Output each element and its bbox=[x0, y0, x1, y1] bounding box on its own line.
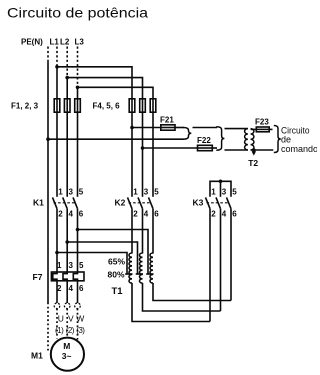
contactor K2 contact 1-2 bbox=[128, 197, 133, 253]
wire K2 column 3 fuse to contact bbox=[152, 112, 154, 197]
svg-text:4: 4 bbox=[222, 209, 227, 218]
wire T2 secondary top to F23 bbox=[251, 128, 257, 130]
wire W dotted to motor bbox=[77, 309, 79, 340]
wire L2 down to fuse F2 bbox=[66, 78, 68, 99]
wire winding C bottom to K3 bbox=[153, 283, 231, 301]
wire T2 primary bottom bbox=[225, 149, 248, 151]
node T1 tap from L2 bbox=[65, 240, 69, 244]
svg-text:Circuito de potência: Circuito de potência bbox=[7, 5, 148, 21]
F7 heater phase 1 bbox=[53, 272, 57, 281]
wire L3 down to fuse F3 bbox=[77, 87, 79, 99]
K1 mechanical link bbox=[54, 202, 77, 204]
svg-text:3: 3 bbox=[69, 261, 74, 270]
svg-text:4: 4 bbox=[69, 209, 74, 218]
K3 mechanical link bbox=[207, 202, 230, 204]
fuse F22 bbox=[198, 145, 213, 150]
node F22 tap bbox=[141, 146, 145, 150]
fuse F6 bbox=[150, 99, 156, 112]
K3 star bus bbox=[210, 181, 231, 197]
svg-text:F1, 2, 3: F1, 2, 3 bbox=[11, 101, 39, 110]
brace selector 2 bbox=[216, 127, 224, 150]
wire K2 column 2 fuse to contact bbox=[142, 112, 144, 197]
svg-text:F22: F22 bbox=[197, 136, 211, 145]
svg-text:F21: F21 bbox=[160, 115, 174, 124]
svg-text:L2: L2 bbox=[60, 38, 70, 47]
fuse F2 bbox=[64, 99, 70, 112]
wire PE dotted to motor bbox=[47, 303, 49, 351]
node L1 junction bbox=[55, 65, 59, 69]
svg-text:5: 5 bbox=[232, 187, 237, 196]
wire branch L3 to F6 column bbox=[78, 87, 154, 99]
svg-text:K3: K3 bbox=[193, 198, 204, 208]
terminal V bbox=[64, 303, 70, 309]
ground arrow on secondary bbox=[252, 151, 257, 155]
fuse F23 bbox=[256, 127, 269, 132]
svg-text:T1: T1 bbox=[112, 286, 124, 297]
motor M1 circle bbox=[51, 338, 84, 371]
node secondary ground tap bbox=[252, 148, 256, 152]
contactor K1 contact 3-4 bbox=[63, 197, 67, 272]
svg-text:M: M bbox=[63, 341, 70, 351]
svg-text:2: 2 bbox=[211, 209, 216, 218]
brace selector 1 bbox=[183, 128, 191, 140]
node T1 tap from L3 bbox=[76, 228, 80, 232]
fuse F21 bbox=[161, 125, 175, 130]
T1 winding A tap tick bbox=[125, 273, 132, 275]
svg-text:6: 6 bbox=[79, 209, 84, 218]
wire T2 primary top bbox=[225, 128, 248, 130]
svg-text:(2): (2) bbox=[66, 326, 75, 335]
wire L2 to coil B tap bbox=[67, 242, 137, 274]
fuse F3 bbox=[75, 99, 81, 112]
svg-text:3~: 3~ bbox=[62, 351, 72, 361]
svg-text:1: 1 bbox=[133, 187, 138, 196]
overload relay F7 box bbox=[51, 272, 84, 281]
terminal U bbox=[54, 303, 60, 309]
wire winding A bottom to K3 bbox=[132, 283, 210, 322]
svg-text:L1: L1 bbox=[50, 38, 60, 47]
wire branch L1 to F4 column bbox=[57, 67, 132, 99]
autotransformer T1 winding C bbox=[150, 253, 153, 283]
svg-text:1: 1 bbox=[57, 261, 62, 270]
svg-text:6: 6 bbox=[154, 209, 159, 218]
wire K2 column 1 fuse to contact bbox=[131, 112, 133, 197]
contactor K1 contact 1-2 bbox=[53, 197, 58, 272]
wire L2 dashed top bbox=[66, 47, 68, 78]
wire L2 column fuse to K1 bbox=[66, 112, 68, 197]
wire W to terminal bbox=[77, 281, 79, 303]
svg-text:80%: 80% bbox=[108, 270, 125, 280]
wire F21 to brace bbox=[175, 127, 184, 129]
svg-text:F4, 5, 6: F4, 5, 6 bbox=[93, 101, 121, 110]
wire PE dashed top bbox=[47, 47, 49, 63]
contactor K3 contact 1-2 bbox=[206, 197, 211, 321]
wire winding B bottom to K3 bbox=[143, 283, 221, 311]
wire V to terminal bbox=[66, 281, 68, 303]
wire T2 secondary bottom out bbox=[251, 149, 274, 151]
svg-text:F23: F23 bbox=[255, 117, 269, 126]
wire L1 column fuse to K1 bbox=[56, 112, 58, 197]
wire U to terminal bbox=[56, 281, 58, 303]
svg-text:5: 5 bbox=[79, 187, 84, 196]
wire L3 to coil C tap bbox=[78, 230, 149, 275]
wire L1 down to fuse F1 bbox=[56, 67, 58, 99]
terminal W bbox=[75, 303, 81, 309]
wire F23 out bbox=[269, 128, 272, 130]
svg-text:6: 6 bbox=[79, 284, 84, 293]
svg-text:F7: F7 bbox=[33, 272, 43, 282]
svg-text:K2: K2 bbox=[115, 198, 126, 208]
contactor K2 contact 3-4 bbox=[138, 197, 143, 253]
svg-text:(3): (3) bbox=[76, 326, 85, 335]
wire U dotted to motor bbox=[56, 309, 58, 339]
fuse F1 bbox=[54, 99, 60, 112]
F7 heater phase 2 bbox=[63, 272, 67, 281]
wire L1 to coil A tap bbox=[57, 253, 127, 275]
svg-text:2: 2 bbox=[133, 209, 138, 218]
node L3 junction bbox=[76, 86, 80, 90]
wire V dotted to motor bbox=[66, 309, 68, 338]
transformer T2 secondary winding bbox=[251, 129, 254, 150]
svg-text:3: 3 bbox=[144, 187, 149, 196]
wire PE solid bbox=[47, 62, 49, 303]
svg-text:K1: K1 bbox=[33, 198, 44, 208]
wire branch L2 to F5 column bbox=[67, 78, 142, 99]
node PE branch N bbox=[46, 137, 50, 141]
contactor K3 contact 3-4 bbox=[216, 197, 221, 311]
svg-text:W: W bbox=[76, 314, 84, 324]
F7 heater phase 3 bbox=[73, 272, 77, 281]
wire F22 feed bbox=[143, 147, 198, 149]
contactor K2 contact 5-6 bbox=[149, 197, 154, 253]
K2 mechanical link bbox=[129, 202, 152, 204]
wire L3 column fuse to K1 bbox=[77, 112, 79, 197]
wire F22 to brace bbox=[212, 147, 217, 149]
wire F21 feed bbox=[132, 127, 161, 129]
T1 winding C tap tick bbox=[146, 273, 153, 275]
fuse F5 bbox=[140, 99, 146, 112]
node F21 tap bbox=[130, 126, 134, 130]
svg-text:6: 6 bbox=[232, 209, 237, 218]
contactor K3 contact 5-6 bbox=[227, 197, 232, 300]
svg-text:3: 3 bbox=[222, 187, 227, 196]
svg-text:L3: L3 bbox=[75, 38, 85, 47]
svg-text:V: V bbox=[68, 314, 74, 324]
transformer T2 primary winding bbox=[245, 129, 248, 150]
wire L3 dashed top bbox=[77, 47, 79, 88]
svg-text:1: 1 bbox=[211, 187, 216, 196]
brace command circuit bbox=[274, 126, 281, 153]
svg-text:4: 4 bbox=[144, 209, 149, 218]
fuse F4 bbox=[129, 99, 135, 112]
T1 winding B tap tick bbox=[136, 273, 143, 275]
contactor K1 contact 5-6 bbox=[73, 197, 78, 272]
svg-text:4: 4 bbox=[69, 284, 74, 293]
wire between braces bbox=[193, 127, 218, 129]
svg-text:M1: M1 bbox=[31, 351, 43, 361]
svg-text:65%: 65% bbox=[108, 257, 125, 267]
autotransformer T1 winding A bbox=[129, 253, 132, 283]
svg-text:T2: T2 bbox=[248, 158, 258, 168]
svg-text:PE(N): PE(N) bbox=[21, 38, 43, 47]
svg-text:U: U bbox=[58, 314, 64, 324]
node K3 bus bbox=[219, 180, 223, 184]
svg-text:2: 2 bbox=[58, 209, 63, 218]
node L2 junction bbox=[65, 76, 69, 80]
svg-text:5: 5 bbox=[79, 261, 84, 270]
svg-text:3: 3 bbox=[69, 187, 74, 196]
svg-text:5: 5 bbox=[154, 187, 159, 196]
autotransformer T1 winding B bbox=[140, 253, 143, 283]
svg-text:(1): (1) bbox=[55, 326, 64, 335]
wire L1 dashed top bbox=[56, 47, 58, 67]
wire neutral feed bbox=[48, 138, 184, 140]
svg-text:1: 1 bbox=[58, 187, 63, 196]
svg-text:comando: comando bbox=[281, 144, 317, 154]
node T1 tap from L1 bbox=[55, 251, 59, 255]
